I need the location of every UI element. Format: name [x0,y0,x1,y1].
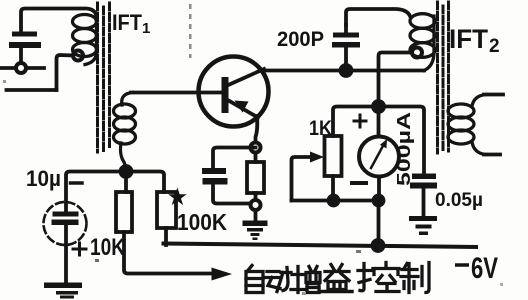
svg-text:500µA: 500µA [394,112,414,186]
wire: IFT1 secondary to base [131,91,222,95]
resistor emitter [247,162,264,193]
char dong 动 [265,268,291,292]
capacitor emitter bypass [202,168,228,185]
svg-text:★: ★ [168,186,187,209]
wire: emitter node to bypass RC [213,148,256,169]
char zhi 制 [401,263,429,293]
wire: input stub bottom [7,88,57,92]
meter minus sign [352,181,366,185]
char zi 自 [246,266,263,293]
ground for 0.05u [409,216,437,235]
char yi 益 [321,265,352,292]
wire: collector to IFT2 primary bottom [262,69,424,73]
node: emitter resistor bottom ring [251,200,261,210]
node: bus junction [373,240,384,251]
svg-text:IFT: IFT [112,10,143,35]
wire: input stub top left [0,66,44,70]
node: IFT2 tap ring [412,48,422,58]
ground for 10u [44,283,82,299]
capacitor C-in top-left [9,32,41,49]
wire: C-in top to IFT1 primary top [21,9,97,32]
transformer IFT1 secondary winding [114,93,136,167]
svg-text:1: 1 [142,20,150,37]
IFT1 core [98,3,110,152]
node: collector/200P junction [341,65,352,76]
wiper arrow of 1K [292,157,312,201]
char kong 控 [358,263,399,292]
resistor 1K (rheostat) [325,136,342,176]
capacitor 10u electrolytic [44,202,87,245]
svg-text:100K: 100K [177,209,227,235]
10u minus sign [71,181,83,185]
transistor Q1 [199,57,269,127]
wire: 200P top to IFT2 primary top [346,9,410,25]
svg-text:10µ: 10µ [26,166,61,191]
svg-text:6V: 6V [471,252,498,285]
node: input ring terminal [16,63,26,73]
wire: IFT2 secondary output stubs [484,95,503,155]
10u plus sign [73,243,86,255]
wire: meter top lead [377,107,381,137]
transformer IFT1 primary winding [73,15,97,65]
ground for emitter network [254,210,258,220]
wire: IFT1 tap to lower input stub [57,55,73,90]
transformer IFT2 secondary winding [448,95,486,155]
svg-text:200P: 200P [277,28,324,51]
wire: C-in bottom lead [19,48,23,63]
svg-text:10K: 10K [90,234,126,261]
wire: main node to 10u [66,172,126,212]
svg-text:0.05µ: 0.05µ [435,190,483,211]
label AGC text (hand-drawn 自动增益控制) [246,263,429,293]
svg-text:1K: 1K [309,117,332,140]
node: IFT1 tap ring [73,51,83,61]
resistor 100K [126,172,164,193]
wire: meter bottom bus [292,177,380,246]
wire: meter top bus with corners [333,107,424,174]
wire: -6V bus [164,244,477,248]
char zeng 增 [291,267,320,293]
capacitor 200P [332,33,360,48]
svg-text:IFT: IFT [449,24,488,54]
node: junction secondary/10K/100K/10u [121,166,132,177]
meter M 500uA [359,137,399,177]
svg-text:2: 2 [489,36,500,57]
IFT2 core [438,2,449,153]
meter plus sign [354,115,366,127]
wire: AGC takeoff arrow [124,232,213,274]
transformer IFT2 primary winding [410,14,435,71]
node: meter bottom junction [374,196,384,206]
node: 1K bottom junction [329,196,339,206]
capacitor 0.05u [410,174,437,189]
node: emitter ring [251,143,261,153]
wire: IFT2 tap down to meter bus [379,53,412,102]
node: meter top junction [373,101,384,112]
resistor 10K [124,172,128,193]
